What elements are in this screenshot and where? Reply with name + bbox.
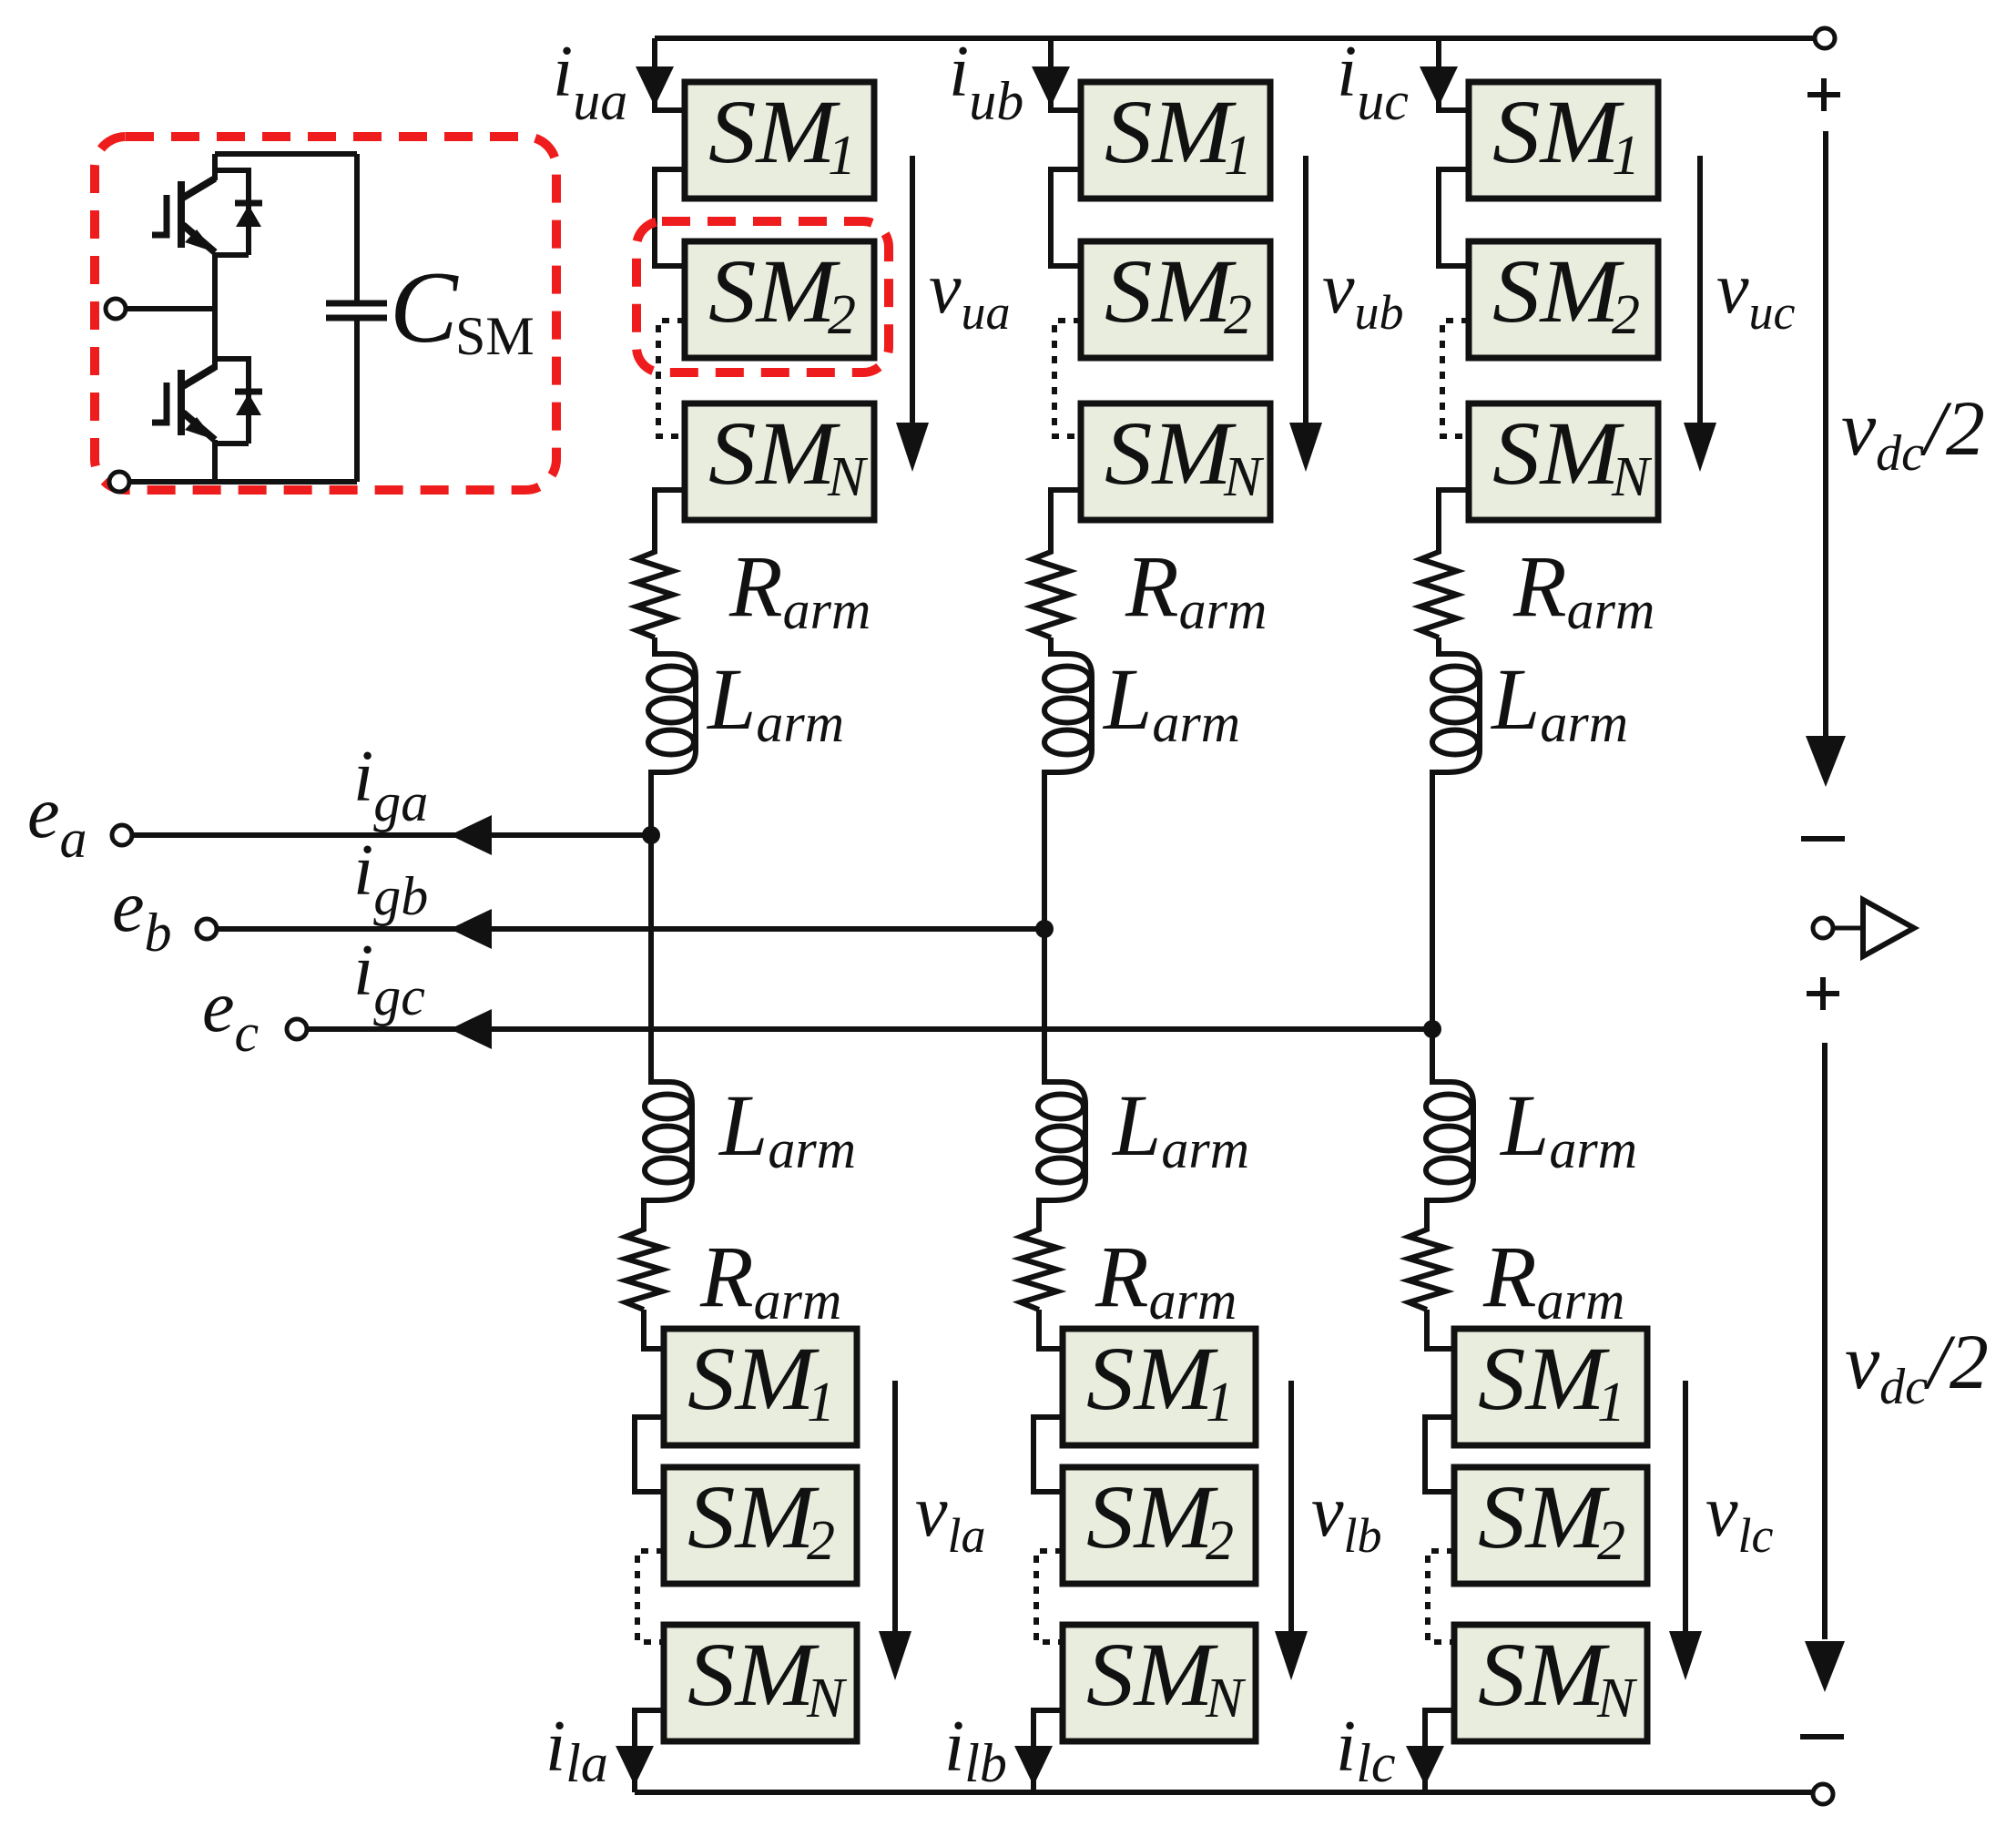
transistor Q1 upper IGBT [152,179,215,252]
svg-text:SM: SM [687,1466,820,1567]
node phase a midpoint junction [642,826,660,844]
dotted wire SM2 to SMN upper arm phase b [1054,321,1081,436]
svg-text:N: N [827,446,869,508]
arrow i_lb into bottom bus [1014,1746,1053,1786]
terminal mid-left of submodule [106,299,126,319]
SM2 box upper arm phase a [685,240,874,358]
terminal e_b [197,919,217,939]
wire top bus to SM1 upper arm phase a [655,38,685,110]
wire top bus to SM1 upper arm phase c [1439,38,1469,110]
terminal e_c [287,1019,307,1039]
svg-text:1: 1 [1612,125,1640,187]
wire node to L_arm lower phase c [1430,1029,1435,1079]
wire grid line e_a [132,832,651,838]
svg-text:2: 2 [1597,1510,1625,1572]
SMN box lower arm phase b [1063,1624,1256,1741]
SM2 box lower arm phase a [664,1466,857,1584]
terminal DC midpoint [1813,918,1833,938]
svg-text:1: 1 [1206,1372,1234,1433]
wire bottom DC bus [635,1790,1812,1795]
label minus lower [1800,1734,1844,1739]
wire L_arm to node phase a [648,772,654,835]
svg-text:SM: SM [1086,1624,1218,1725]
diode D2 antiparallel lower [215,359,262,444]
svg-text:N: N [806,1668,848,1729]
inductor L_arm upper phase a [651,641,696,785]
wire top DC bus [655,36,1814,41]
inductor L_arm lower phase b [1039,1069,1085,1213]
SM1 box lower arm phase b [1063,1328,1256,1445]
arrow v_dc/2 upper [1823,131,1828,738]
inductor L_arm lower phase c [1427,1069,1473,1213]
diode D1 antiparallel upper [215,170,262,255]
wire SM1 to SM2 lower arm phase b [1033,1417,1063,1492]
resistor R_arm lower phase a [626,1220,662,1310]
svg-text:SM: SM [687,1328,820,1429]
svg-text:SM: SM [455,306,535,366]
svg-text:SM: SM [708,81,840,182]
triangle midpoint pointer [1863,900,1914,956]
wire node to L_arm lower phase a [648,835,654,1079]
SMN box lower arm phase a [664,1624,857,1741]
wire grid line e_c [307,1026,1432,1032]
terminal e_a [112,825,132,845]
inductor L_arm lower phase a [644,1069,692,1213]
SMN box upper arm phase a [685,403,874,520]
svg-text:SM: SM [1105,240,1237,342]
wire L_arm to node phase b [1042,772,1047,929]
wire bottom rail of submodule [129,479,357,485]
label minus upper [1801,836,1845,842]
arrow i_gb toward grid [450,909,492,949]
svg-text:1: 1 [807,1372,835,1433]
arrow v_ub [1303,156,1308,424]
wire node to L_arm lower phase b [1042,929,1047,1079]
dotted wire SM2 to SMN lower arm phase b [1036,1551,1063,1642]
label plus top [1807,92,1840,97]
wire capacitor bottom lead [354,318,360,482]
arrow i_lc into bottom bus [1406,1746,1444,1786]
wire SM1 to SM2 upper arm phase b [1051,169,1081,266]
dotted wire SM2 to SMN lower arm phase c [1428,1551,1454,1642]
wire SMN to bottom bus phase b [1033,1710,1063,1792]
resistor R_arm upper phase a [636,543,673,638]
wire SMN to bottom bus phase a [635,1710,664,1792]
transistor Q2 lower IGBT [152,367,215,440]
svg-text:2: 2 [1206,1510,1234,1572]
wire R_arm to SM1 lower phase a [644,1310,664,1349]
SMN box lower arm phase c [1454,1624,1647,1741]
wire grid line e_b [217,926,1044,932]
terminal bottom-right DC negative [1813,1784,1833,1804]
svg-text:SM: SM [1478,1466,1610,1567]
arrow v_ua [910,156,915,424]
svg-text:C: C [390,251,459,364]
svg-text:SM: SM [1492,81,1624,182]
resistor R_arm lower phase b [1021,1220,1057,1310]
inductor L_arm upper phase c [1432,641,1480,785]
arrow v_lb [1288,1381,1294,1632]
SM2 box upper arm phase c [1469,240,1658,358]
svg-text:SM: SM [1086,1328,1218,1429]
wire SMN to bottom bus phase c [1425,1710,1454,1792]
wire R_arm to L_arm upper phase c [1436,638,1441,656]
wire top bus to SM1 upper arm phase b [1051,38,1081,110]
svg-text:2: 2 [828,284,856,346]
dotted wire SM2 to SMN upper arm phase a [658,321,685,436]
svg-text:2: 2 [807,1510,835,1572]
svg-text:SM: SM [687,1624,820,1725]
wire SMN to R_arm upper phase a [655,490,685,546]
wire L_arm to R_arm lower phase c [1424,1200,1430,1231]
arrow v_lc [1683,1381,1688,1632]
capacitor C_SM plates [326,301,387,307]
arrow i_uc into upper arm [1420,66,1458,107]
svg-text:SM: SM [1478,1624,1610,1725]
svg-text:N: N [1596,1668,1638,1729]
SM1 box upper arm phase c [1469,81,1658,199]
node phase c midpoint junction [1423,1020,1441,1038]
wire midpoint to buffer [1833,926,1863,931]
SM1 box lower arm phase a [664,1328,857,1445]
arrow i_ga toward grid [450,815,492,855]
node phase b midpoint junction [1035,920,1054,938]
wire R_arm to SM1 lower phase b [1039,1310,1063,1349]
svg-text:2: 2 [1224,284,1252,346]
svg-text:1: 1 [1224,125,1252,187]
svg-text:SM: SM [1105,81,1237,182]
wire top rail of submodule [215,151,357,157]
label plus lower [1807,991,1839,996]
arrow i_ua into upper arm [636,66,674,107]
wire IGBT bridge vertical main [212,154,218,180]
wire R_arm to SM1 lower phase c [1427,1310,1454,1349]
terminal bottom-left of submodule [109,472,129,492]
arrow v_uc [1697,156,1703,424]
wire SM1 to SM2 lower arm phase a [635,1417,664,1492]
SM2 box lower arm phase c [1454,1466,1647,1584]
wire SMN to R_arm upper phase b [1051,490,1081,546]
red dashed highlight around SM2 of phase a [636,221,889,372]
wire SM1 to SM2 upper arm phase a [655,169,685,266]
svg-text:SM: SM [1478,1328,1610,1429]
SM1 box lower arm phase c [1454,1328,1647,1445]
resistor R_arm upper phase b [1033,543,1069,638]
wire R_arm to L_arm upper phase b [1048,638,1054,656]
svg-text:1: 1 [1597,1372,1625,1433]
arrow i_ub into upper arm [1032,66,1070,107]
svg-text:N: N [1223,446,1265,508]
svg-text:2: 2 [1612,284,1640,346]
SM1 box upper arm phase b [1081,81,1270,199]
wire L_arm to R_arm lower phase b [1036,1200,1042,1231]
SMN box upper arm phase b [1081,403,1270,520]
svg-text:SM: SM [1492,240,1624,342]
wire mid terminal to bridge midpoint [126,306,215,311]
SM1 box upper arm phase a [685,81,874,199]
svg-text:SM: SM [1492,403,1624,504]
inductor L_arm upper phase b [1044,641,1092,785]
wire SMN to R_arm upper phase c [1439,490,1469,546]
submodule detail red dashed enclosure [95,137,556,490]
wire L_arm to node phase c [1430,772,1435,1029]
arrow i_la into bottom bus [616,1746,654,1786]
dotted wire SM2 to SMN upper arm phase c [1442,321,1469,436]
svg-text:SM: SM [1086,1466,1218,1567]
SM2 box lower arm phase b [1063,1466,1256,1584]
svg-text:N: N [1205,1668,1247,1729]
svg-text:SM: SM [708,403,840,504]
wire L_arm to R_arm lower phase a [641,1200,647,1231]
arrow v_la [892,1381,898,1632]
wire capacitor top lead [354,154,360,301]
wire SM1 to SM2 lower arm phase c [1425,1417,1454,1492]
resistor R_arm lower phase c [1409,1220,1445,1310]
arrow v_dc/2 lower [1822,1043,1828,1639]
wire R_arm to L_arm upper phase a [652,638,657,656]
SMN box upper arm phase c [1469,403,1658,520]
resistor R_arm upper phase c [1420,543,1457,638]
SM2 box upper arm phase b [1081,240,1270,358]
wire SM1 to SM2 upper arm phase c [1439,169,1469,266]
svg-text:1: 1 [828,125,856,187]
arrow i_gc toward grid [450,1009,492,1049]
dotted wire SM2 to SMN lower arm phase a [637,1551,664,1642]
svg-text:SM: SM [1105,403,1237,504]
svg-text:N: N [1611,446,1653,508]
svg-text:SM: SM [708,240,840,342]
terminal top-right DC positive [1815,28,1835,48]
